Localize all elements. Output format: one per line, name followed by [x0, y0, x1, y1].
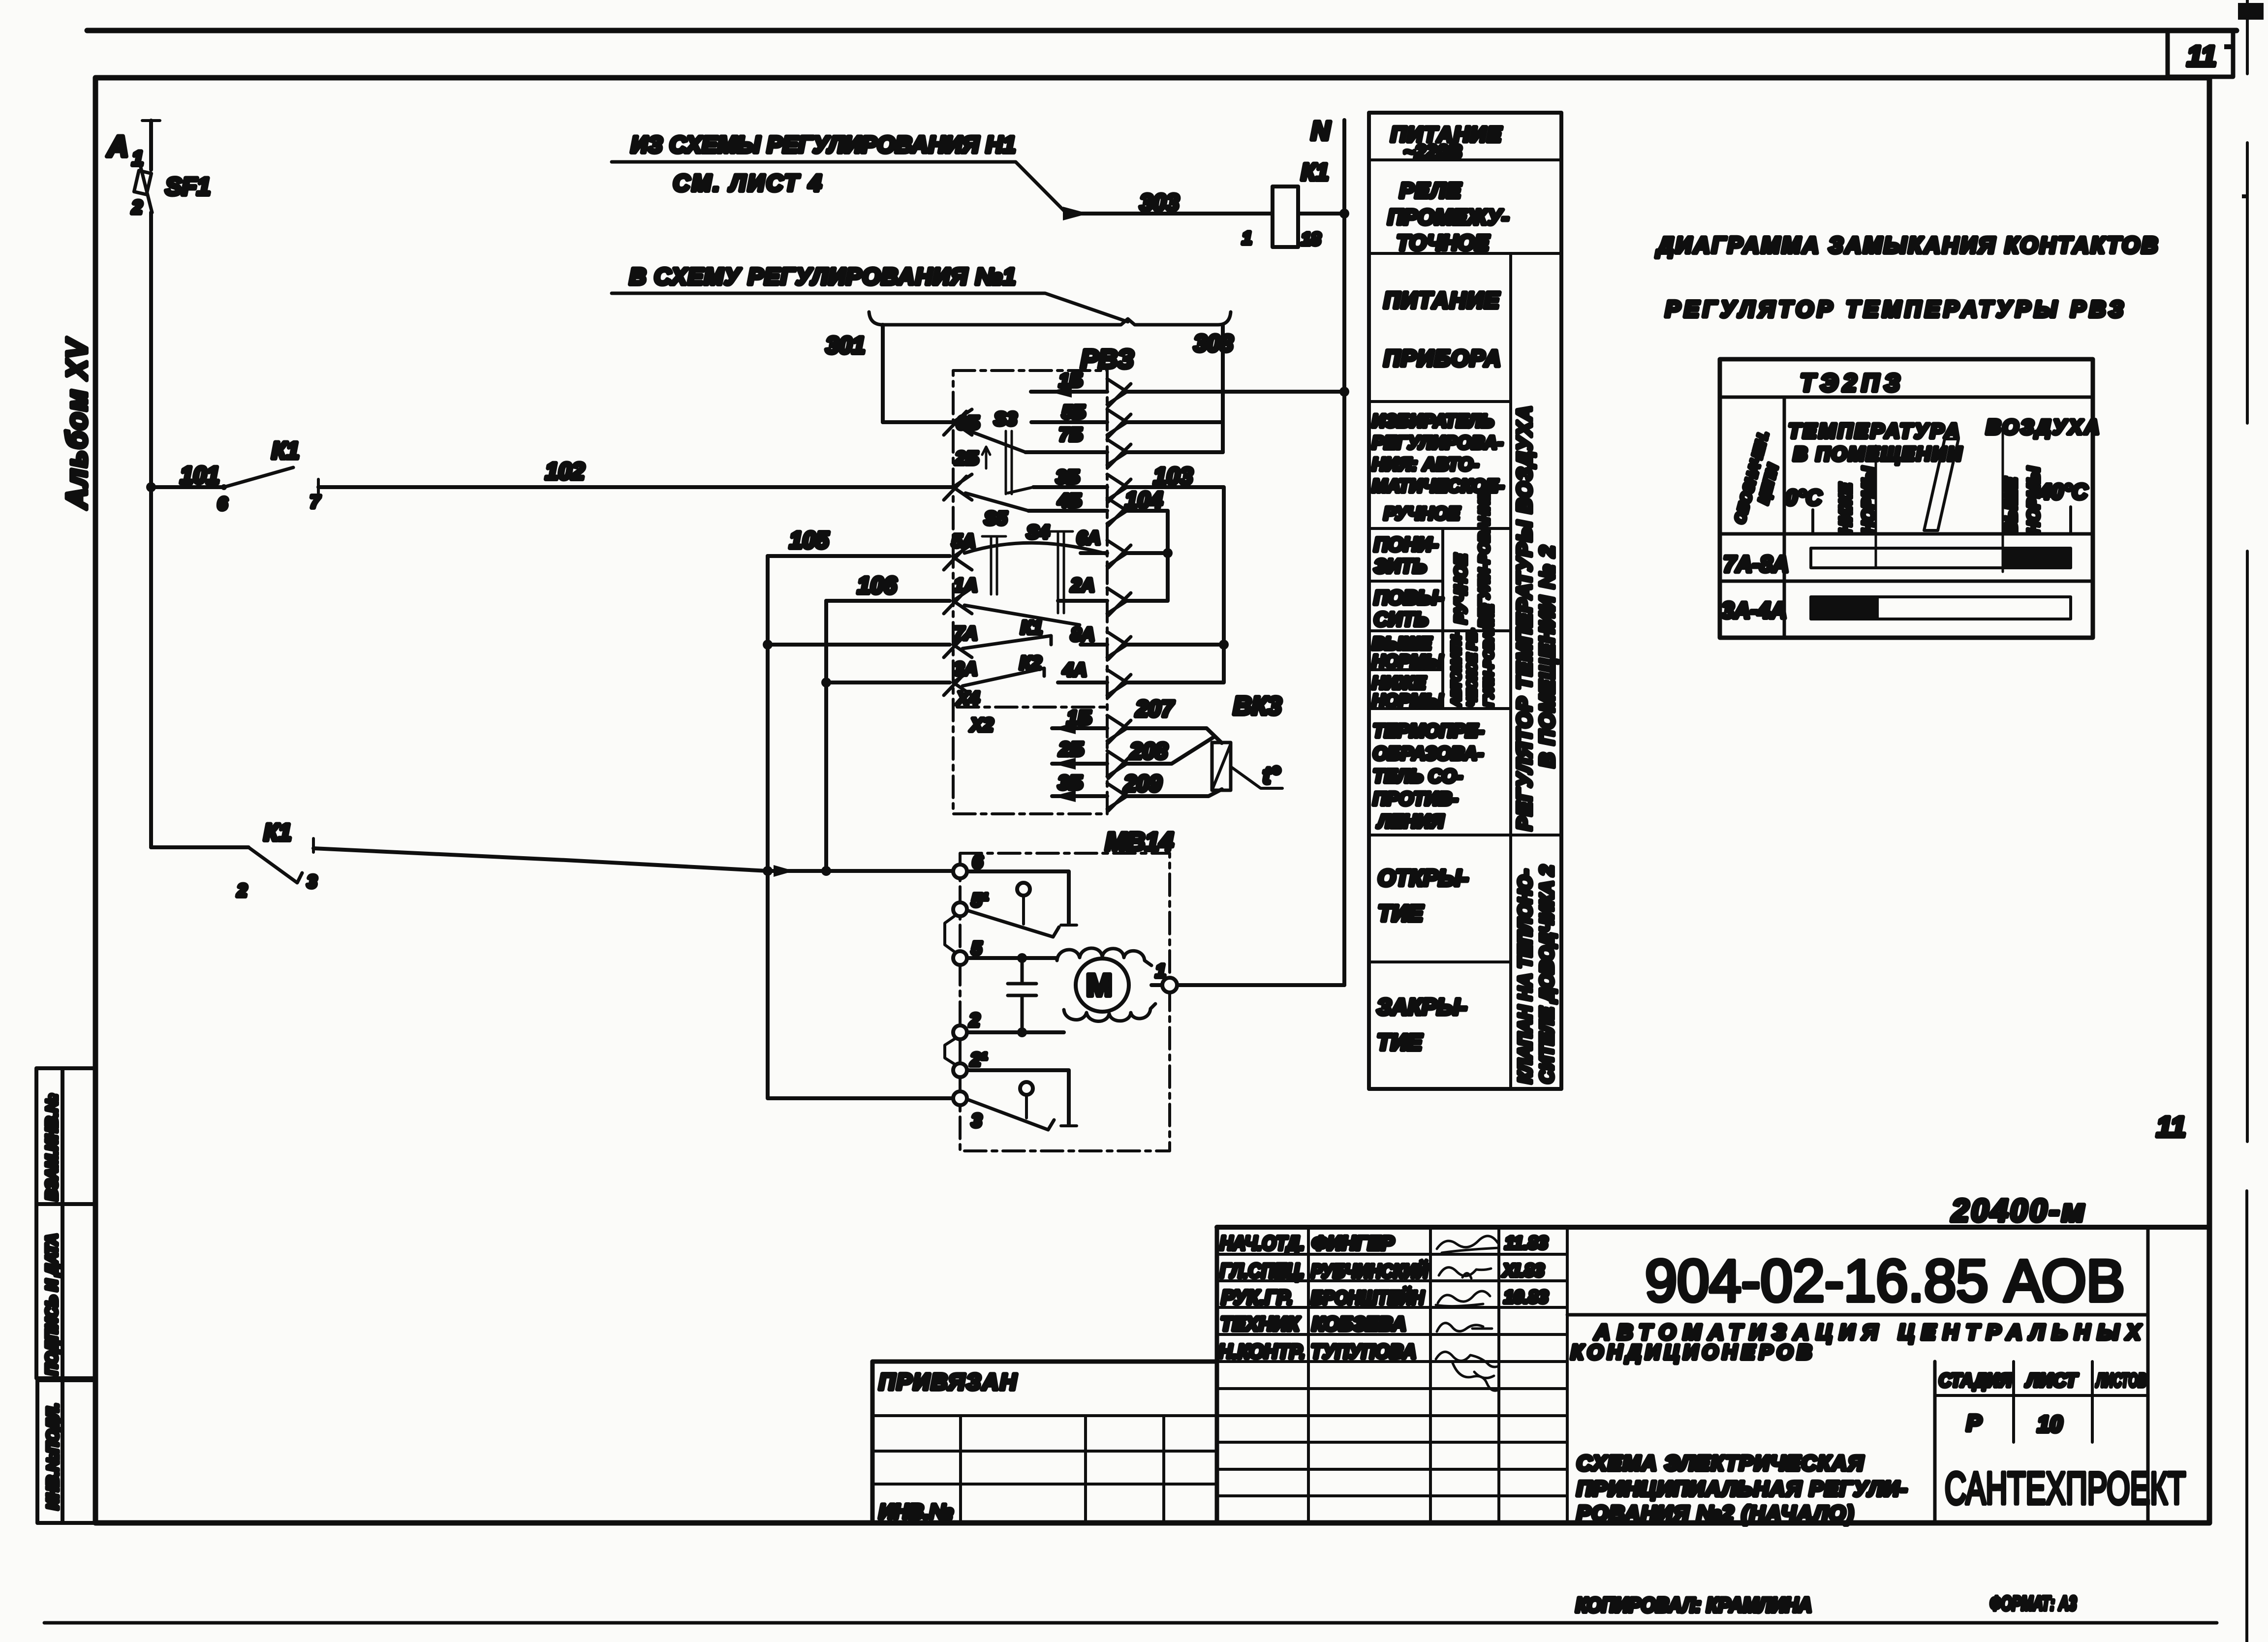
svg-text:101: 101: [180, 463, 219, 489]
switch S5 linkage bars: [991, 536, 997, 594]
svg-text:ПОНИ-: ПОНИ-: [1374, 534, 1438, 556]
sheet number box top right: [2168, 31, 2233, 77]
left margin stamp box ПОДПИСЬ И ДАТА: [36, 1204, 95, 1378]
svg-text:6А: 6А: [1077, 528, 1101, 549]
underline and leader to group bracket: [612, 293, 1128, 322]
wire 4А inside: [1058, 681, 1107, 684]
junction node 106 vertical: [821, 866, 831, 876]
svg-text:5А: 5А: [952, 531, 976, 552]
svg-text:РУЧНОЕ: РУЧНОЕ: [1384, 503, 1460, 524]
svg-text:5Б: 5Б: [1062, 402, 1086, 423]
svg-text:НОРМЫ: НОРМЫ: [2024, 466, 2043, 534]
svg-text:К2: К2: [1020, 653, 1042, 674]
svg-text:АВТОМАТИ-: АВТОМАТИ-: [1449, 631, 1463, 707]
wire 5Б inside: [1031, 420, 1107, 424]
svg-text:СМ. ЛИСТ 4: СМ. ЛИСТ 4: [673, 170, 823, 196]
function table right of schematic: [1369, 113, 1561, 1089]
svg-text:3А-4А: 3А-4А: [1721, 597, 1787, 623]
svg-text:ТИЕ: ТИЕ: [1377, 1029, 1423, 1055]
svg-text:НОРМЫ: НОРМЫ: [1372, 690, 1443, 711]
svg-text:К1: К1: [264, 820, 291, 846]
svg-text:3: 3: [971, 1111, 982, 1131]
svg-text:ГЛ.СПЕЦ.: ГЛ.СПЕЦ.: [1220, 1260, 1305, 1282]
svg-text:СТАДИЯ: СТАДИЯ: [1939, 1370, 2012, 1391]
svg-text:11: 11: [2156, 1111, 2186, 1143]
svg-text:10: 10: [2037, 1411, 2063, 1437]
svg-text:РУЧНОЕ: РУЧНОЕ: [1452, 554, 1470, 624]
svg-text:103: 103: [1153, 464, 1193, 490]
temperature callout t°: [1231, 767, 1282, 788]
wire 3Б inside: [1033, 485, 1107, 489]
title block bottom line: [872, 1520, 2209, 1525]
svg-text:1Б: 1Б: [1059, 371, 1083, 391]
svg-text:5: 5: [971, 938, 982, 959]
svg-text:Альбом XV: Альбом XV: [61, 338, 93, 510]
svg-text:303: 303: [1194, 331, 1233, 357]
svg-text:ГУЛИ-РОВАНИЕ: ГУЛИ-РОВАНИЕ: [1481, 604, 1496, 707]
svg-text:ЗАКРЫ-: ЗАКРЫ-: [1377, 994, 1467, 1020]
svg-text:ИЗ СХЕМЫ РЕГУЛИРОВАНИЯ Н1: ИЗ СХЕМЫ РЕГУЛИРОВАНИЯ Н1: [631, 131, 1016, 157]
mechanical link 5'-5: [945, 915, 956, 953]
svg-text:РЕГУЛИРОВА-: РЕГУЛИРОВА-: [1372, 433, 1503, 453]
connector contacts right edge of РВЗ: [1107, 379, 1131, 811]
svg-text:ЛИСТ: ЛИСТ: [2025, 1370, 2078, 1391]
svg-text:В СХЕМУ РЕГУЛИРОВАНИЯ №1: В СХЕМУ РЕГУЛИРОВАНИЯ №1: [629, 263, 1016, 289]
svg-text:ИЗБИРАТЕЛЬ: ИЗБИРАТЕЛЬ: [1372, 411, 1494, 431]
svg-text:8А: 8А: [1071, 624, 1095, 645]
svg-text:6: 6: [217, 494, 228, 514]
wire 3A: [826, 681, 950, 684]
svg-text:2Б: 2Б: [955, 448, 979, 469]
signature table rows: [1217, 1254, 1567, 1496]
svg-text:СИТЬ: СИТЬ: [1374, 609, 1428, 630]
svg-text:SF1: SF1: [165, 173, 211, 200]
svg-text:20400-м: 20400-м: [1951, 1193, 2087, 1228]
common vertical wire left (to 105 / 7A / terminal 3): [766, 556, 770, 871]
contact bar 3А-4А: [1811, 597, 2071, 619]
svg-text:0°С: 0°С: [1785, 486, 1822, 510]
contact K1 (2-3) lower: [151, 845, 249, 849]
svg-text:ВЫШЕ: ВЫШЕ: [2002, 477, 2020, 534]
wire 8А to 103 vertical: [1127, 643, 1224, 647]
contact K1 (6-7): [221, 484, 227, 490]
svg-text:2А: 2А: [1070, 575, 1095, 596]
vertical wire for 106 / 3A: [824, 601, 828, 871]
svg-text:СИТЕЛЕ ДОВОДЧИКА 2: СИТЕЛЕ ДОВОДЧИКА 2: [1537, 866, 1557, 1084]
group bracket over РВЗ wires: [869, 312, 1231, 325]
svg-text:ВК3: ВК3: [1233, 692, 1282, 720]
svg-text:7А-8А: 7А-8А: [1723, 551, 1789, 577]
bottom outer line: [44, 1621, 2217, 1625]
svg-text:XI.83: XI.83: [1502, 1260, 1544, 1280]
svg-text:ПОДПИСЬ И ДАТА: ПОДПИСЬ И ДАТА: [43, 1234, 61, 1375]
svg-text:РЕГУЛЯТОР ТЕМПЕРАТУРЫ РВЗ: РЕГУЛЯТОР ТЕМПЕРАТУРЫ РВЗ: [1665, 296, 2123, 322]
svg-text:7Б: 7Б: [1059, 425, 1083, 445]
device РВЗ dash-dot enclosure: [953, 371, 1107, 814]
wire 209: [1127, 789, 1222, 796]
svg-text:НОРМЫ: НОРМЫ: [1372, 651, 1443, 671]
junction node 6А-104: [1163, 548, 1173, 558]
svg-text:303: 303: [1140, 190, 1179, 216]
svg-text:ПРОМЕЖУ-: ПРОМЕЖУ-: [1388, 205, 1509, 229]
svg-text:ЧЕСКОЕ РЕ-: ЧЕСКОЕ РЕ-: [1464, 629, 1479, 707]
limit switch upper: wire from 6: [967, 871, 1069, 923]
node A1 terminal tick: [142, 119, 160, 122]
svg-text:В ПОМЕЩЕНИИ № 2: В ПОМЕЩЕНИИ № 2: [1535, 545, 1558, 768]
svg-text:К1: К1: [1021, 618, 1043, 638]
limit switch lower actuator: [1020, 1082, 1033, 1095]
main left vertical wire from SF1 down: [149, 213, 153, 847]
wire 1Б to N bus: [1127, 390, 1344, 394]
thermistor ВК3: [1212, 743, 1231, 790]
N bus vertical: [1342, 120, 1346, 985]
limit switch upper actuator: [1017, 883, 1030, 896]
svg-text:ТУПУПОВА: ТУПУПОВА: [1311, 1341, 1416, 1363]
svg-text:4Б: 4Б: [1057, 491, 1082, 511]
wire terminal 1 to N bus: [1177, 983, 1344, 987]
svg-text:11.83: 11.83: [1505, 1233, 1548, 1253]
wire 1Б row inside with direction arrow: [1031, 390, 1107, 394]
wire 7A: [768, 643, 950, 647]
svg-text:4А: 4А: [1062, 660, 1087, 681]
wire 7Б to node 303: [1127, 450, 1223, 454]
terminal 2: [953, 1025, 967, 1039]
left attachment table ПРИВЯЗАН: [872, 1360, 1217, 1364]
signature scribbles: [1436, 1236, 1501, 1391]
svg-text:ПРИНЦИПИАЛЬНАЯ РЕГУЛИ-: ПРИНЦИПИАЛЬНАЯ РЕГУЛИ-: [1577, 1477, 1908, 1501]
wire 8А inside: [1081, 643, 1107, 647]
svg-text:105: 105: [789, 527, 829, 554]
svg-text:А: А: [106, 130, 128, 163]
switch S3 blade 6Б-7Б: [967, 430, 1025, 452]
svg-text:Р: Р: [1966, 1410, 1982, 1436]
svg-text:18: 18: [1301, 229, 1321, 249]
svg-text:В ПОМЕЩЕНИИ: В ПОМЕЩЕНИИ: [1793, 443, 1963, 465]
svg-text:207: 207: [1135, 696, 1175, 721]
threshold line НИЖЕ: [1875, 446, 1877, 567]
svg-text:6: 6: [972, 852, 983, 872]
svg-text:РЕЛЕ: РЕЛЕ: [1399, 179, 1462, 203]
svg-text:РЕГУЛЯТОР ТЕМПЕРАТУРЫ ВОЗДУХ: РЕГУЛЯТОР ТЕМПЕРАТУРЫ ВОЗДУХА: [1513, 405, 1536, 831]
wire 2А inside: [1058, 599, 1107, 603]
svg-text:КЛАПАН НА ТЕПЛОНО-: КЛАПАН НА ТЕПЛОНО-: [1515, 869, 1536, 1084]
svg-text:3Б: 3Б: [1056, 467, 1080, 488]
svg-text:ПРОТИВ-: ПРОТИВ-: [1373, 789, 1458, 809]
wire 5Б to node 303: [1127, 420, 1223, 424]
wire 303 vertical from bracket: [1221, 325, 1225, 452]
svg-text:РОВАНИЯ №2 (НАЧАЛО): РОВАНИЯ №2 (НАЧАЛО): [1577, 1502, 1855, 1525]
mechanical link 2-2': [945, 1038, 956, 1065]
svg-text:5¹: 5¹: [971, 890, 988, 911]
signature table verticals: [1215, 1227, 1219, 1523]
svg-text:106: 106: [857, 573, 897, 599]
terminal 5: [953, 951, 967, 965]
limit switch lower blade from 3: [967, 1099, 1054, 1130]
wire 103 loop: [1127, 487, 1224, 682]
junction node wire 101: [146, 482, 156, 492]
svg-text:3: 3: [307, 871, 317, 892]
svg-text:ОТКРЫ-: ОТКРЫ-: [1378, 865, 1468, 891]
svg-text:2: 2: [131, 197, 142, 218]
wire from A1 down to breaker SF1: [149, 121, 153, 170]
wire 303: [1073, 212, 1273, 216]
wire 207: [1127, 728, 1222, 743]
svg-text:КОПИРОВАЛ: КРАМЛИНА: КОПИРОВАЛ: КРАМЛИНА: [1576, 1593, 1812, 1616]
wire coil to N bus: [1298, 212, 1344, 216]
svg-text:НАЧ.ОТД.: НАЧ.ОТД.: [1220, 1233, 1305, 1254]
wire 208: [1127, 737, 1214, 764]
contact К1 blade 7А-8А: [963, 636, 1051, 649]
svg-text:ТЕРМОПРЕ-: ТЕРМОПРЕ-: [1373, 721, 1484, 742]
svg-text:ЛЕНИЯ: ЛЕНИЯ: [1376, 811, 1444, 832]
title block top line: [1217, 1225, 2209, 1230]
svg-text:S4: S4: [1026, 522, 1049, 543]
wire from K1(2-3) to common node: [313, 848, 768, 871]
junction node 3A branch: [821, 678, 831, 687]
svg-text:~220В: ~220В: [1403, 141, 1462, 163]
scan page edge artifacts right side: [2247, 0, 2247, 1642]
svg-text:2Б: 2Б: [1058, 739, 1084, 760]
svg-text:ПОВЫ-: ПОВЫ-: [1374, 587, 1444, 609]
svg-text:НИЖЕ: НИЖЕ: [1836, 482, 1855, 534]
wire from 2 to winding bottom: [967, 1030, 1064, 1034]
svg-text:104: 104: [1125, 487, 1163, 513]
svg-text:БРОНШТЕЙН: БРОНШТЕЙН: [1311, 1286, 1425, 1308]
threshold line ВЫШЕ: [2002, 428, 2004, 572]
breaker SF1: [134, 171, 151, 195]
switch S4 linkage bars: [1058, 531, 1064, 613]
svg-text:102: 102: [545, 459, 585, 485]
wire 101: [151, 485, 224, 489]
svg-text:СХЕМА ЭЛЕКТРИЧЕСКАЯ: СХЕМА ЭЛЕКТРИЧЕСКАЯ: [1577, 1452, 1864, 1475]
S3 linkage bars: [1006, 431, 1012, 494]
motor M circle: [1076, 959, 1129, 1012]
arrow on wire 303: [1063, 207, 1088, 220]
svg-text:N: N: [1311, 116, 1331, 146]
wire 301 vertical: [881, 325, 885, 422]
wire 301 horizontal into 6Б: [883, 420, 953, 424]
svg-text:М: М: [1086, 967, 1112, 1003]
contact bar 7А-8А: [1811, 548, 2071, 568]
terminal 3: [953, 1091, 967, 1105]
svg-text:К1: К1: [272, 438, 299, 464]
svg-text:11: 11: [2187, 40, 2216, 72]
svg-text:1А: 1А: [954, 575, 978, 596]
svg-text:904-02-16.85 АОВ: 904-02-16.85 АОВ: [1645, 1248, 2125, 1314]
junction node on N bus: [1339, 209, 1349, 218]
svg-text:3Б: 3Б: [1058, 772, 1083, 794]
contact К2 blade 3А-4А: [963, 668, 1044, 686]
wire 104 loop: [1127, 511, 1168, 601]
left margin stamp box ИНВ.№ПОДЛ.: [37, 1380, 95, 1523]
svg-text:ИНВ.№ПОДЛ.: ИНВ.№ПОДЛ.: [44, 1403, 62, 1510]
svg-text:ТЭ2ПЗ: ТЭ2ПЗ: [1800, 369, 1905, 397]
contact diagram table ТЭ2ПЗ: [1720, 359, 2093, 638]
svg-text:РУБЧИНСКИЙ: РУБЧИНСКИЙ: [1311, 1260, 1429, 1282]
svg-text:ТЕМПЕРАТУРА: ТЕМПЕРАТУРА: [1788, 419, 1961, 442]
limit switch upper blade from 5': [967, 910, 1059, 937]
svg-text:Н.КОНТР.: Н.КОНТР.: [1218, 1341, 1305, 1363]
terminal 1: [1162, 978, 1177, 992]
svg-text:S5: S5: [984, 508, 1007, 529]
svg-text:НИЖЕ: НИЖЕ: [1372, 673, 1426, 693]
svg-text:ТЕЛЬ СО-: ТЕЛЬ СО-: [1373, 766, 1462, 787]
svg-text:ВЗАМ.ИНВ.№: ВЗАМ.ИНВ.№: [43, 1094, 61, 1201]
junction node at common wire: [763, 866, 773, 876]
svg-text:40°С: 40°С: [2039, 480, 2088, 504]
svg-text:1: 1: [1242, 228, 1252, 248]
blade 2Б-4Б: [965, 493, 1028, 511]
svg-text:1Б: 1Б: [1067, 707, 1092, 729]
svg-text:ЗИТЬ: ЗИТЬ: [1374, 556, 1427, 577]
svg-text:НИЯ: АВТО-: НИЯ: АВТО-: [1372, 454, 1479, 474]
svg-text:МВ14: МВ14: [1105, 828, 1174, 856]
svg-text:Х2: Х2: [969, 715, 993, 736]
svg-text:2: 2: [237, 880, 247, 900]
wire 106: [826, 599, 950, 603]
setpoint parallelogram: [1924, 439, 1958, 530]
common wire continues to motor terminal 6: [768, 869, 957, 873]
underline and leader to wire 303: [612, 162, 1067, 214]
connector contacts left edge of РВЗ: [944, 409, 972, 695]
svg-text:ТОЧНОЕ: ТОЧНОЕ: [1397, 231, 1490, 255]
svg-text:ПИТАНИЕ: ПИТАНИЕ: [1384, 287, 1500, 313]
wire 105: [768, 554, 950, 558]
svg-text:208: 208: [1129, 738, 1168, 764]
svg-text:7А: 7А: [954, 623, 978, 644]
svg-text:t°: t°: [1263, 763, 1280, 789]
wire motor to terminal 1: [1151, 983, 1163, 987]
svg-text:ФОРМАТ: А3: ФОРМАТ: А3: [1990, 1593, 2077, 1614]
svg-text:РВЗ: РВЗ: [1081, 344, 1134, 374]
svg-text:209: 209: [1123, 771, 1162, 796]
svg-text:10.83: 10.83: [1504, 1287, 1548, 1307]
wires 207/208/209 inside with arrows: [1052, 726, 1107, 730]
svg-text:КОБЗЕВА: КОБЗЕВА: [1312, 1313, 1406, 1335]
junction node 8А-103: [1219, 640, 1229, 650]
motor M winding bottom: [1064, 1004, 1155, 1022]
svg-text:ПРИВЯЗАН: ПРИВЯЗАН: [879, 1369, 1018, 1394]
left margin stamp box ВЗАМ.ИНВ.№: [36, 1068, 95, 1523]
svg-text:7: 7: [310, 492, 321, 512]
svg-text:ВЫШЕ: ВЫШЕ: [1372, 633, 1432, 653]
limit switch lower: wire from 2': [967, 1070, 1069, 1124]
capacitor C: [1008, 958, 1036, 1032]
wire 6А to 104 vertical: [1127, 551, 1168, 555]
motor M winding top: [1057, 948, 1151, 965]
drawing sheet outer top border line: [87, 28, 2237, 33]
svg-text:САНТЕХПРОЕКТ: САНТЕХПРОЕКТ: [1945, 1463, 2186, 1514]
svg-text:S3: S3: [994, 409, 1017, 430]
svg-text:ТЕХНИК: ТЕХНИК: [1220, 1313, 1300, 1335]
svg-text:1: 1: [1155, 961, 1166, 982]
svg-text:ОБРАЗОВА-: ОБРАЗОВА-: [1373, 744, 1484, 764]
svg-text:ТИЕ: ТИЕ: [1378, 900, 1424, 926]
svg-text:РУК.ГР.: РУК.ГР.: [1221, 1287, 1293, 1308]
actuator МВ14 dash-dot enclosure: [960, 853, 1170, 1151]
terminal 2': [953, 1063, 967, 1077]
svg-text:Х4: Х4: [956, 688, 979, 709]
svg-text:ЛИСТОВ: ЛИСТОВ: [2095, 1370, 2146, 1391]
blade 5А-6А: [964, 543, 1107, 554]
relay coil K1: [1273, 186, 1298, 247]
wire 4Б inside: [1028, 509, 1107, 513]
connection arrow on common wire: [774, 865, 794, 877]
svg-text:К1: К1: [1301, 159, 1329, 186]
svg-text:6Б: 6Б: [956, 413, 980, 434]
stage columns: [1935, 1227, 2148, 1523]
terminal 6: [953, 865, 967, 878]
wire from 5 to capacitor and winding: [967, 956, 1057, 960]
svg-text:ФИНГЕР: ФИНГЕР: [1312, 1233, 1394, 1254]
terminal 5': [953, 902, 967, 916]
wire 6А inside: [1081, 551, 1107, 555]
svg-text:ИНВ.№: ИНВ.№: [879, 1500, 953, 1523]
svg-text:2: 2: [969, 1010, 980, 1031]
wire 102: [318, 485, 953, 489]
svg-text:2¹: 2¹: [970, 1050, 987, 1070]
svg-text:ПРИБОРА: ПРИБОРА: [1384, 345, 1502, 371]
blade 1А-2А: [964, 605, 1080, 625]
svg-text:3А: 3А: [954, 659, 978, 680]
wire 7Б inside: [1025, 450, 1107, 454]
junction node 7A branch: [763, 640, 773, 650]
svg-text:301: 301: [826, 333, 865, 359]
